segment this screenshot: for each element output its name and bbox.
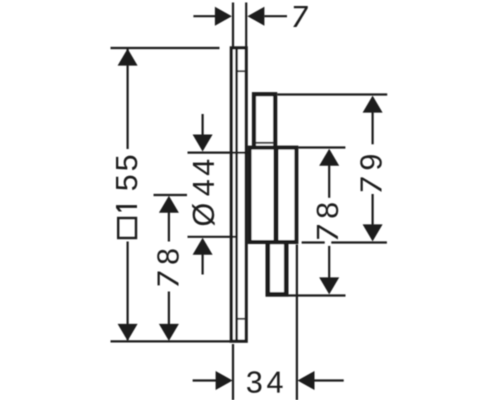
- dim 155 line upper: [126, 48, 128, 149]
- dim 155 square symbol: [118, 218, 136, 238]
- dim 78R line upper: [328, 165, 330, 198]
- dim 7 leader line right: [264, 15, 287, 17]
- dim 78R down arrow: [319, 277, 339, 294]
- dim 78L line lower: [168, 292, 170, 326]
- dim 78L label digit 8: [157, 249, 179, 263]
- wall plate inner horizontal line bottom: [237, 318, 245, 320]
- wall plate inner vertical line: [235, 49, 238, 340]
- dim 7 label: [293, 6, 308, 27]
- dim 155 label digit 5b: [116, 156, 137, 170]
- dim 34 arrow right: [298, 371, 315, 390]
- dim 34 label digit 3: [247, 371, 261, 393]
- dim 44 up arrow: [193, 238, 213, 255]
- dim 78R label digit 7: [317, 225, 338, 240]
- dim 34 leader line right: [315, 379, 344, 381]
- dim 7 arrow left: [215, 7, 232, 26]
- lower stem: [268, 242, 286, 294]
- dim 79 line lower: [372, 194, 374, 225]
- dim 78L top tick: [154, 194, 188, 196]
- dim 7 arrow right: [247, 7, 264, 26]
- dim 155 top tick: [111, 47, 220, 49]
- dim 155 label digit 1: [116, 205, 137, 211]
- handle stem: [254, 94, 275, 148]
- handle stem inner line: [256, 142, 273, 144]
- dim 44 label digit 4b: [193, 160, 214, 175]
- dim 78R up arrow: [319, 149, 339, 166]
- dim 155 line lower: [126, 242, 128, 341]
- dim 78L line upper: [168, 212, 170, 242]
- dim 79 top tick: [277, 93, 387, 95]
- dim 79 bottom tick segment 1: [302, 241, 325, 243]
- dim 79 line upper: [372, 112, 374, 144]
- dim 44 label digit 4a: [193, 180, 214, 195]
- wall plate outer rectangle: [231, 48, 246, 341]
- dim 34 label digit 4: [267, 372, 282, 393]
- wall plate inner horizontal line top: [237, 70, 245, 72]
- dim 79 down arrow: [363, 224, 383, 241]
- dim 7 extension line left: [232, 3, 234, 50]
- dim 155 up arrow: [118, 49, 138, 66]
- dim 44 top tick: [188, 152, 252, 154]
- dim 34 leader line left: [193, 379, 217, 381]
- dim 78R top tick: [298, 146, 345, 148]
- dim 44 label diameter symbol: [192, 204, 215, 226]
- dim 79 label digit 7: [361, 177, 382, 192]
- dim 78R label digit 8: [317, 203, 339, 217]
- dim 155 down arrow: [118, 324, 138, 341]
- dim 155 label digit 5a: [116, 176, 137, 190]
- dim 79 up arrow: [363, 96, 383, 113]
- dim 34 extension line left: [232, 344, 234, 400]
- dim 44 line above: [202, 114, 204, 135]
- dim 44 down arrow: [193, 135, 213, 152]
- dim 78R bottom tick: [289, 294, 346, 296]
- dim 79 bottom tick segment 2: [331, 241, 387, 243]
- dim 155 bottom tick: [111, 340, 232, 342]
- dim 7 extension line right: [245, 3, 247, 50]
- dim 78L up arrow: [159, 196, 179, 213]
- dim 78L label digit 7: [158, 272, 179, 287]
- dim 44 line below: [202, 254, 204, 275]
- cartridge inner vertical line: [274, 150, 279, 241]
- dim 34 arrow left: [216, 371, 233, 390]
- dim 7 leader line left: [193, 15, 215, 17]
- dim 78L down arrow: [159, 324, 179, 341]
- dim 79 label digit 9: [360, 155, 382, 169]
- dim 34 extension line right: [296, 245, 298, 400]
- cartridge body: [250, 148, 297, 242]
- dim 44 bottom tick: [188, 236, 238, 238]
- dim 78R line lower: [328, 246, 330, 278]
